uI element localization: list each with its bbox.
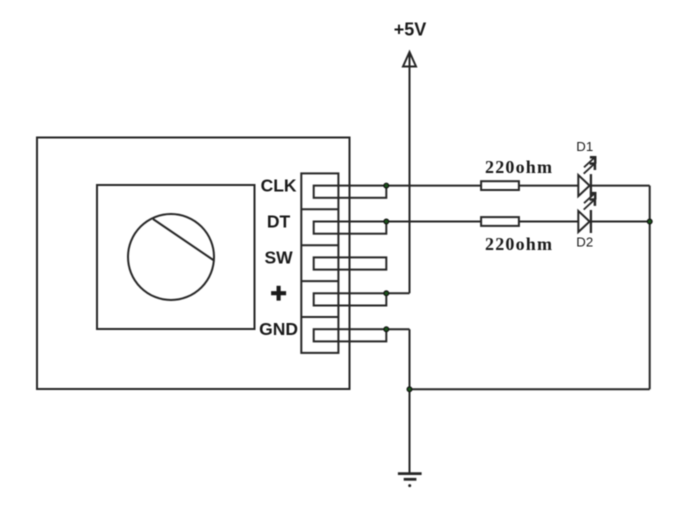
svg-text:D2: D2 [576,235,593,250]
svg-text:SW: SW [264,247,293,267]
svg-text:GND: GND [259,319,298,339]
svg-text:DT: DT [267,212,291,232]
svg-text:CLK: CLK [261,176,297,196]
svg-text:220ohm: 220ohm [485,234,553,254]
svg-text:+5V: +5V [394,20,427,40]
svg-text:220ohm: 220ohm [485,157,553,177]
svg-text:D1: D1 [576,139,593,154]
